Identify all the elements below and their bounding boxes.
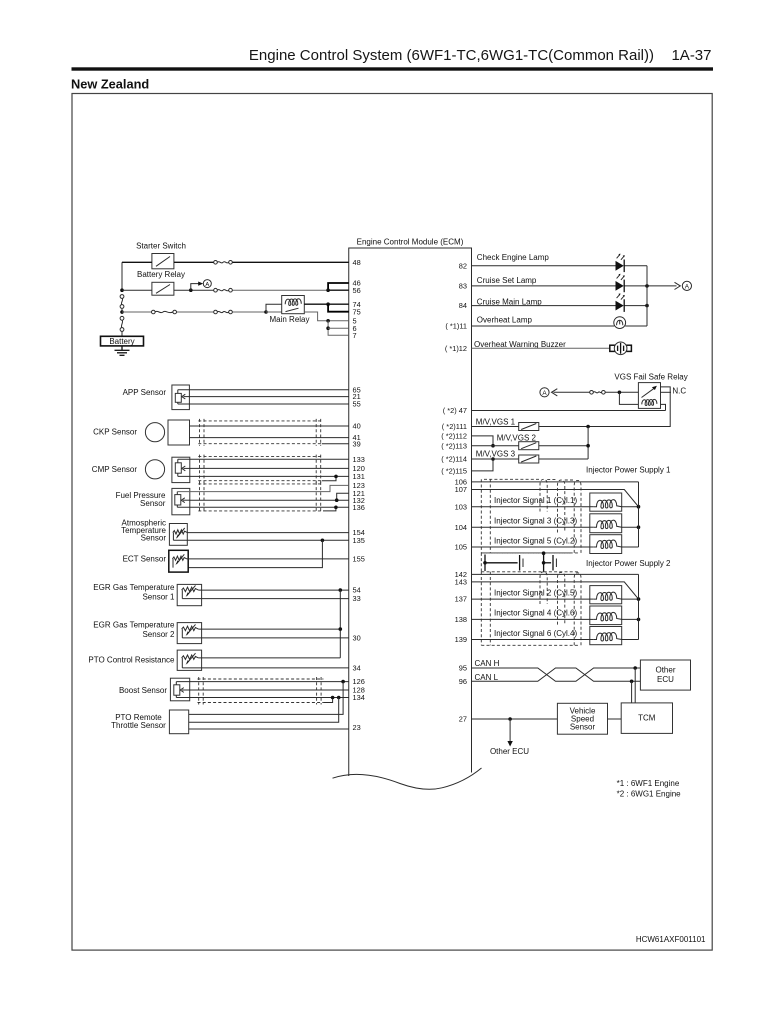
svg-text:TCM: TCM	[638, 714, 656, 723]
ECT sensor box (thermistor)	[169, 550, 188, 572]
junction VGS relay coil branch	[618, 391, 622, 395]
injector coil 1	[590, 493, 622, 511]
junction pin27 other ECU branch	[508, 717, 512, 721]
svg-text:CAN H: CAN H	[475, 659, 500, 668]
wire PTO-CR pin 34	[182, 667, 348, 669]
circled A (VGS feed)	[540, 388, 549, 397]
wire pin 95 CAN H	[472, 668, 641, 681]
relay coil return to pin 47	[661, 404, 666, 410]
svg-text:Sensor 1: Sensor 1	[142, 592, 175, 601]
TCM box	[621, 703, 672, 734]
svg-text:Sensor 2: Sensor 2	[142, 630, 175, 639]
svg-text:96: 96	[459, 677, 467, 686]
svg-text:107: 107	[455, 485, 467, 494]
svg-text:131: 131	[353, 472, 365, 481]
VGS fail safe relay box	[638, 383, 660, 409]
svg-text:Injector Signal 4 (Cyl.6): Injector Signal 4 (Cyl.6)	[494, 609, 577, 618]
branch FPS pin 121	[337, 493, 349, 500]
junction ATS/ECT shared return	[321, 539, 325, 543]
CKP sensor box	[168, 420, 190, 445]
junction CAN H to TCM	[633, 666, 637, 670]
svg-text:82: 82	[459, 261, 467, 270]
PTO Control Resistance box	[177, 650, 201, 670]
wire coil to pins 74/75	[304, 303, 348, 305]
svg-text:39: 39	[353, 439, 361, 448]
wire pin 138	[472, 618, 590, 620]
capacitor C1	[483, 555, 523, 572]
svg-text:Engine Control System (6WF1-TC: Engine Control System (6WF1-TC,6WG1-TC(C…	[249, 47, 654, 64]
injector coil 6	[590, 627, 622, 645]
svg-text:Injector Power Supply 1: Injector Power Supply 1	[586, 465, 671, 474]
wire EGR1 pin 33	[182, 598, 348, 600]
svg-text:( *2)111: ( *2)111	[442, 422, 467, 431]
injector coil 2	[590, 586, 622, 604]
svg-text:M/V,VGS 1: M/V,VGS 1	[476, 418, 516, 427]
wire EGR2 to shared node	[198, 628, 340, 630]
svg-text:134: 134	[353, 693, 365, 702]
wire FPS pin 123 (stepped)	[177, 485, 348, 491]
wire shield drain pin 39	[322, 443, 349, 445]
junction lamp bus / A arrow	[645, 284, 649, 288]
svg-text:( *2)112: ( *2)112	[441, 432, 467, 441]
svg-text:( *1)12: ( *1)12	[445, 344, 467, 353]
wire pin 137	[472, 598, 590, 600]
junction boost return to PTO remote	[337, 696, 341, 700]
svg-text:143: 143	[455, 578, 467, 587]
svg-text:139: 139	[455, 635, 467, 644]
svg-text:A: A	[542, 390, 547, 397]
circled A (lamp feed)	[682, 281, 691, 290]
svg-text:( *2)115: ( *2)115	[441, 467, 467, 476]
svg-text:CMP Sensor: CMP Sensor	[92, 465, 138, 474]
fusible link (main relay branch)	[120, 316, 124, 331]
svg-text:34: 34	[353, 664, 361, 673]
svg-text:EGR Gas Temperature: EGR Gas Temperature	[93, 621, 175, 630]
wires Boost pins 126/128/134	[176, 681, 348, 683]
wire pin (*1)11	[472, 325, 648, 327]
svg-text:138: 138	[455, 615, 467, 624]
svg-text:40: 40	[353, 422, 361, 431]
connector 1 on main relay feed	[152, 310, 177, 314]
wires ATS pins 154/135	[187, 532, 348, 534]
header rule	[72, 67, 714, 70]
svg-text:33: 33	[353, 594, 361, 603]
svg-text:133: 133	[353, 455, 365, 464]
solenoid M/V VGS 2	[519, 442, 539, 450]
svg-text:ECT Sensor: ECT Sensor	[123, 554, 167, 563]
svg-text:Other: Other	[655, 665, 675, 674]
svg-text:7: 7	[353, 331, 357, 340]
ground	[115, 346, 130, 355]
Other ECU box	[640, 660, 690, 690]
svg-text:Throttle Sensor: Throttle Sensor	[111, 721, 166, 730]
svg-text:Overheat Lamp: Overheat Lamp	[477, 315, 533, 324]
arrow to circled A	[191, 284, 199, 291]
wire pin 103	[472, 506, 590, 508]
wire pin (*1)12	[472, 347, 610, 349]
svg-text:Sensor: Sensor	[140, 499, 166, 508]
svg-text:ECU: ECU	[657, 675, 674, 684]
junction coil branch	[264, 310, 268, 314]
svg-text:A: A	[685, 284, 690, 291]
ECM (Engine Control Module) box with torn wavy bottom	[333, 248, 482, 789]
CMP sensor pickup circle	[145, 460, 164, 479]
svg-text:104: 104	[455, 523, 467, 532]
FPS shield drain to pin 136	[323, 507, 336, 511]
junction battery bus row2	[120, 288, 124, 292]
LED cruise main	[616, 293, 625, 312]
svg-text:95: 95	[459, 664, 467, 673]
svg-text:Injector Signal 2 (Cyl.5): Injector Signal 2 (Cyl.5)	[494, 588, 577, 597]
injector coil 4	[590, 606, 622, 625]
svg-text:( *2)114: ( *2)114	[441, 455, 467, 464]
wire VSS to TCM	[608, 718, 622, 720]
svg-text:30: 30	[353, 634, 361, 643]
injector bank2 supply bus	[638, 574, 640, 639]
CMP shield (dashed)	[198, 456, 321, 458]
svg-text:HCW61AXF001101: HCW61AXF001101	[636, 935, 706, 944]
injector bank1 supply bus	[638, 482, 640, 547]
Fuel Pressure sensor box	[172, 488, 190, 514]
wire pin48 row	[122, 261, 152, 263]
LED check engine	[616, 254, 625, 273]
svg-text:( *2) 47: ( *2) 47	[443, 406, 467, 415]
buzzer symbol	[610, 342, 632, 355]
wire pin 83	[472, 285, 677, 287]
Boost shield drain to pin 134	[323, 698, 332, 703]
EGR Gas Temperature sensor 2 box (thermistor)	[177, 623, 201, 644]
svg-text:Other ECU: Other ECU	[490, 747, 529, 756]
wire EGR2 pin 30	[182, 637, 348, 639]
wire pin 107 supply (diagonal)	[472, 490, 639, 507]
battery feed vertical bus	[121, 262, 123, 292]
svg-text:23: 23	[353, 723, 361, 732]
Battery Relay	[152, 282, 174, 295]
wire battery relay row	[122, 289, 152, 291]
svg-text:*2 : 6WG1 Engine: *2 : 6WG1 Engine	[617, 789, 682, 798]
wire PTO remote pin 23	[189, 728, 349, 730]
svg-text:83: 83	[459, 282, 467, 291]
FPS shield (dashed)	[198, 483, 323, 485]
svg-text:137: 137	[455, 595, 467, 604]
svg-text:84: 84	[459, 301, 467, 310]
overheat lamp symbol	[614, 317, 626, 329]
connector on starter wire	[214, 261, 233, 265]
svg-text:56: 56	[353, 286, 361, 295]
junction CAN L to TCM	[630, 680, 634, 684]
injector coil 5	[590, 535, 622, 554]
svg-text:( *1)11: ( *1)11	[445, 322, 467, 331]
N.C terminal	[661, 391, 672, 393]
lamp bus vertical	[646, 266, 648, 326]
battery	[101, 336, 144, 346]
Atmospheric Temperature sensor box (thermistor)	[169, 524, 187, 546]
svg-text:Cruise Set Lamp: Cruise Set Lamp	[477, 276, 537, 285]
wires APP pins 65/21/55	[178, 389, 349, 391]
arrowhead pointing left at circled A	[552, 389, 558, 396]
Vehicle Speed Sensor box	[557, 703, 607, 734]
APP sensor box	[172, 385, 190, 410]
PTO Remote Throttle Sensor box	[169, 710, 188, 734]
svg-text:Cruise Main Lamp: Cruise Main Lamp	[477, 297, 542, 306]
wire pin 106 supply	[472, 481, 639, 483]
Starter Switch	[152, 254, 174, 269]
svg-text:Sensor: Sensor	[141, 534, 167, 543]
wire EGR1 pin 54	[198, 589, 348, 591]
svg-text:Injector Power Supply 2: Injector Power Supply 2	[586, 559, 671, 568]
ECM right pin number labels	[441, 261, 467, 723]
svg-text:VGS Fail Safe Relay: VGS Fail Safe Relay	[614, 372, 687, 381]
svg-text:Sensor: Sensor	[570, 722, 596, 731]
wire pin 27	[472, 718, 558, 720]
solenoid M/V VGS 1	[519, 423, 539, 431]
Main Relay	[282, 296, 305, 314]
wire pin 142 supply	[472, 573, 639, 575]
dashed band around capacitors	[481, 553, 578, 572]
wire ECT pin 155	[187, 558, 349, 560]
svg-text:M/V,VGS 3: M/V,VGS 3	[476, 449, 516, 458]
wire FPS pin 132	[190, 499, 349, 501]
junction battery bus row3	[120, 310, 124, 314]
wire main relay feed row	[122, 311, 152, 313]
svg-text:Starter Switch: Starter Switch	[136, 242, 186, 251]
svg-text:Battery Relay: Battery Relay	[137, 270, 185, 279]
wire pin (*2)47	[472, 410, 666, 412]
branch wires down to PTO remote throttle sensor	[189, 682, 343, 715]
junction to A ref arrow	[189, 288, 193, 292]
svg-text:105: 105	[455, 543, 467, 552]
svg-text:Injector Signal 1 (Cyl.1): Injector Signal 1 (Cyl.1)	[494, 496, 577, 505]
svg-text:155: 155	[353, 555, 365, 564]
wire pin 139	[472, 639, 590, 641]
connector on VGS feed	[590, 391, 606, 395]
svg-text:Injector Signal 3 (Cyl.3): Injector Signal 3 (Cyl.3)	[494, 517, 577, 526]
arrowhead to circled A lamp feed	[675, 282, 681, 289]
injector coil 3	[590, 514, 622, 533]
Boost shield (dashed)	[198, 678, 324, 680]
wire PTO-CR to shared node	[198, 657, 340, 659]
harness shield dashes bank1	[481, 479, 581, 553]
svg-text:Injector Signal 5 (Cyl.2): Injector Signal 5 (Cyl.2)	[494, 536, 577, 545]
wire pin 143 supply (diagonal)	[472, 582, 639, 599]
shared EGR/PTO vertical	[339, 590, 341, 658]
svg-text:Battery: Battery	[109, 337, 134, 346]
wire contact output to pins 5/6/7	[304, 312, 348, 321]
LED cruise set	[616, 274, 625, 293]
svg-text:1A-37: 1A-37	[671, 47, 711, 64]
wires pins (*2)112/(*2)113	[472, 436, 494, 446]
svg-text:CAN L: CAN L	[475, 673, 499, 682]
svg-text:( *2)113: ( *2)113	[441, 441, 467, 450]
svg-text:M/V,VGS 2: M/V,VGS 2	[497, 433, 537, 442]
harness shield dashes bank2	[481, 572, 581, 646]
capacitor C2	[542, 551, 557, 571]
svg-text:PTO Control Resistance: PTO Control Resistance	[88, 655, 175, 664]
svg-text:Engine Control Module (ECM): Engine Control Module (ECM)	[357, 237, 464, 246]
wire pin 104	[472, 526, 590, 528]
connector 2 on main relay feed	[214, 310, 233, 314]
svg-text:APP Sensor: APP Sensor	[123, 388, 167, 397]
wire FPS pin 136	[177, 506, 348, 508]
svg-text:Injector Signal 6 (Cyl.4): Injector Signal 6 (Cyl.4)	[494, 629, 577, 638]
svg-text:EGR Gas Temperature: EGR Gas Temperature	[93, 583, 175, 592]
connector on battery relay wire	[214, 288, 233, 292]
svg-text:Check Engine Lamp: Check Engine Lamp	[477, 253, 550, 262]
relay contact output down to VGS bus	[588, 387, 670, 427]
junction boost supply to PTO remote	[341, 680, 345, 684]
CKP shield (dashed)	[198, 420, 321, 422]
svg-text:Main Relay: Main Relay	[269, 315, 309, 324]
svg-text:103: 103	[455, 502, 467, 511]
circled A (battery relay row)	[203, 280, 211, 289]
svg-text:48: 48	[353, 258, 361, 267]
wire pin 96 CAN L	[472, 668, 641, 681]
CMP shield drain to pin 131	[322, 476, 336, 480]
svg-text:A: A	[205, 282, 209, 288]
svg-text:N.C: N.C	[672, 386, 686, 395]
wire pin (*2)111	[472, 426, 519, 428]
wire to main relay coil	[266, 304, 282, 312]
svg-text:136: 136	[353, 503, 365, 512]
svg-text:Boost Sensor: Boost Sensor	[119, 686, 167, 695]
wire pin 105	[472, 546, 590, 548]
solenoid M/V VGS 3	[519, 455, 539, 463]
fusible link (battery relay branch)	[120, 295, 124, 309]
wires CMP pins 133/120/131	[178, 458, 349, 460]
CMP sensor box	[172, 457, 190, 482]
svg-text:New Zealand: New Zealand	[71, 77, 149, 92]
svg-text:27: 27	[459, 715, 467, 724]
VGS bus vertical	[587, 427, 589, 460]
diagram frame	[72, 94, 712, 951]
CKP sensor pickup circle	[145, 423, 164, 442]
EGR Gas Temperature sensor 1 box (thermistor)	[177, 584, 201, 605]
wire pin 82	[472, 265, 648, 267]
wires pins (*2)114/(*2)115	[472, 459, 494, 471]
wire pin 84	[472, 305, 648, 307]
svg-text:*1 : 6WF1 Engine: *1 : 6WF1 Engine	[617, 779, 680, 788]
svg-text:75: 75	[353, 307, 361, 316]
svg-text:135: 135	[353, 536, 365, 545]
Boost sensor box	[170, 678, 189, 701]
ECM left pin number labels	[353, 258, 365, 732]
svg-text:55: 55	[353, 400, 361, 409]
wire into main relay contact	[266, 311, 282, 313]
wires CKP pins 40/41	[190, 425, 349, 427]
bracket pins 46/56	[328, 283, 349, 290]
svg-text:CKP Sensor: CKP Sensor	[93, 428, 137, 437]
